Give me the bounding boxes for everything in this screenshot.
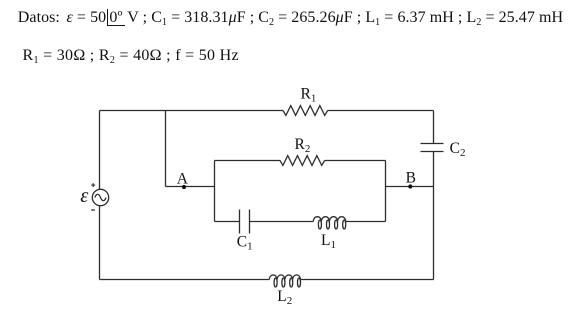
wire node B horizontal bbox=[386, 186, 434, 188]
source U1 epsilon AC source bbox=[80, 183, 108, 210]
datos text line 2 bbox=[23, 47, 239, 65]
wire bottom rail right bbox=[301, 279, 434, 281]
wire node A horizontal bbox=[166, 186, 215, 188]
inductor L2 bbox=[269, 275, 300, 307]
capacitor C2 bbox=[421, 140, 466, 159]
wire box top rail left bbox=[215, 160, 281, 162]
node B bbox=[406, 170, 416, 189]
wire box bottom rail right bbox=[346, 221, 386, 223]
node A bbox=[177, 170, 189, 189]
wire top rail right segment bbox=[328, 110, 434, 112]
wire box bottom rail left bbox=[215, 221, 240, 223]
svg-text:C1: C1 bbox=[237, 234, 253, 253]
wire bottom rail left bbox=[100, 279, 270, 281]
wire box top rail right bbox=[325, 160, 386, 162]
wire parallel box right edge bbox=[385, 161, 387, 222]
svg-text:ε: ε bbox=[80, 185, 89, 207]
svg-text:R2: R2 bbox=[295, 136, 311, 155]
svg-text:L2: L2 bbox=[277, 288, 292, 307]
svg-text:L1: L1 bbox=[321, 232, 336, 251]
resistor R2 bbox=[280, 136, 325, 165]
wire between C1 and L1 bbox=[250, 221, 314, 223]
svg-text:R1: R1 bbox=[301, 86, 317, 105]
wire top rail left segment bbox=[100, 110, 284, 112]
wire parallel box left edge bbox=[214, 161, 216, 222]
wire left vertical lower bbox=[99, 206, 101, 280]
wire right vertical lower bbox=[433, 152, 435, 280]
wire left vertical upper bbox=[99, 111, 101, 190]
wire right vertical upper bbox=[433, 111, 435, 144]
inductor L1 bbox=[313, 217, 345, 251]
wire junction drop to node A bbox=[165, 111, 167, 187]
svg-text:B: B bbox=[406, 170, 416, 187]
svg-text:A: A bbox=[177, 170, 189, 187]
svg-text:C2: C2 bbox=[450, 140, 466, 159]
datos text line 1 bbox=[18, 9, 563, 27]
resistor R1 bbox=[283, 86, 328, 116]
capacitor C1 bbox=[237, 210, 253, 253]
